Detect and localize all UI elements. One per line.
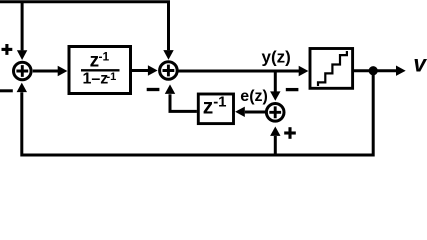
arrowhead into summer 2 top [163,50,173,60]
summer S2 [160,62,178,80]
label - (summer 1 bottom input) [0,89,13,92]
wire: top feed line with corner down to summer 2 [0,2,169,50]
arrowhead output v [396,66,406,76]
wire: summer 3 to delay box (leftward) [245,111,266,114]
label + (summer 1 top input) [2,44,13,55]
wire: feedback branch up into summer 3 [274,136,277,155]
summer S1 [13,62,31,80]
summer S3 [266,104,284,122]
svg-text:z: z [203,96,214,119]
wire: branch from y(z) line down to summer 3 [274,71,277,92]
svg-text:-1: -1 [99,50,110,64]
arrowhead into summer 1 bottom [17,83,27,93]
arrowhead into integrator [58,66,68,76]
wire: summer 2 to quantizer, y(z) line [178,70,299,73]
node: output junction dot [369,66,378,75]
arrowhead into summer 1 top [17,50,27,60]
label - (summer 3 top input) [286,88,299,91]
wire: delay box out, left then up to summer 2 bottom [170,94,197,111]
wire: summer 1 to integrator [33,70,58,73]
arrowhead into summer 3 top [270,91,280,100]
svg-text:e(z): e(z) [240,88,268,105]
label - (summer 2 bottom input) [147,88,160,91]
wire: quantizer to output arrow [354,69,397,72]
svg-text:y(z): y(z) [262,47,291,66]
svg-text:1–z: 1–z [83,70,109,87]
quantizer box [310,49,353,89]
svg-text:v: v [413,51,427,77]
wire: integrator to summer 2 [132,69,148,72]
label + (summer 3 bottom input) [284,127,296,139]
integrator label z^-1 / 1-z^-1 [81,50,120,88]
quantizer staircase glyph [318,51,347,86]
arrowhead into delay box right side [235,107,245,117]
integrator U1 box [69,47,131,94]
wire: drop from top line into summer 1 [21,2,24,51]
svg-text:-1: -1 [213,94,226,111]
arrowhead into summer 2 left [148,65,158,75]
arrowhead into summer 3 bottom [270,127,280,136]
arrowhead into summer 2 bottom [165,84,175,94]
wire: feedback from node down, along bottom, up to summer 1 [22,71,373,155]
svg-text:-1: -1 [107,71,117,83]
delay box z^-1 [198,94,233,124]
delay label z^-1 [203,94,227,119]
arrowhead into quantizer [299,66,309,76]
